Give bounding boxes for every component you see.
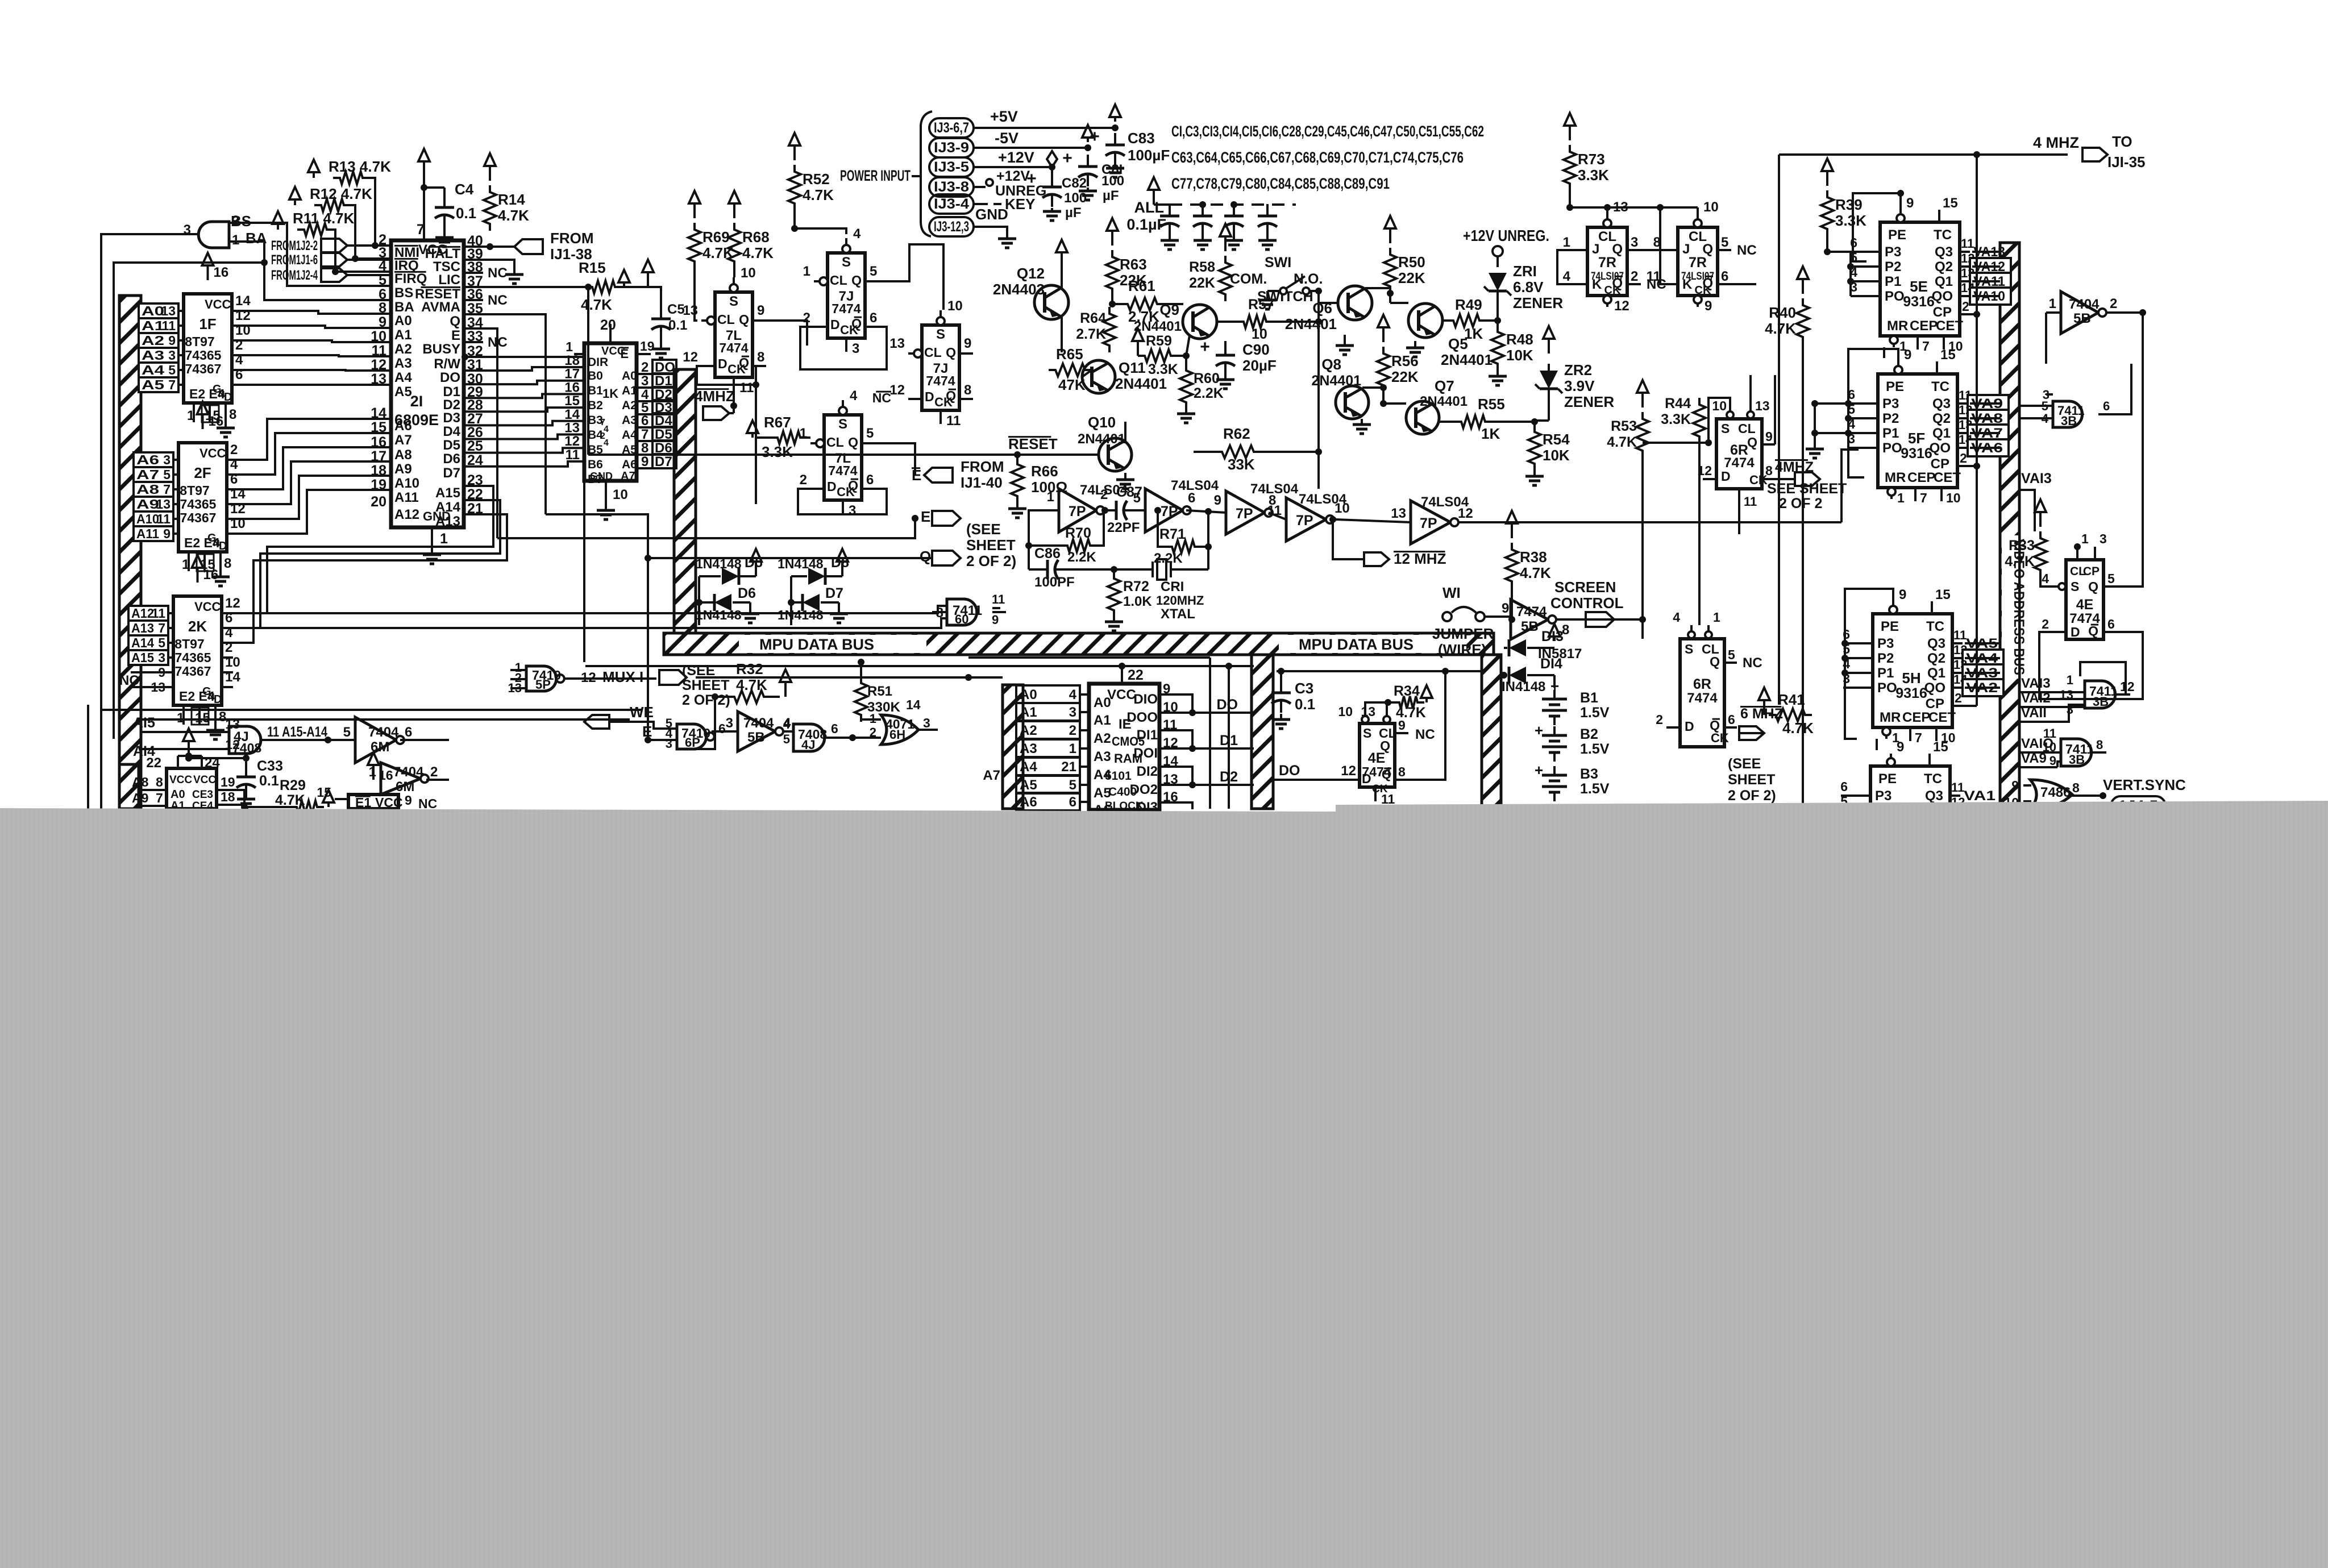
svg-text:+: + bbox=[1535, 722, 1543, 739]
svg-text:8: 8 bbox=[964, 382, 971, 398]
svg-text:Q: Q bbox=[1382, 767, 1391, 781]
svg-text:CP: CP bbox=[1931, 456, 1949, 472]
Q8 ground bbox=[1361, 419, 1363, 425]
svg-text:N.O.: N.O. bbox=[1294, 271, 1323, 287]
svg-text:9: 9 bbox=[168, 333, 176, 348]
svg-text:3: 3 bbox=[726, 716, 733, 731]
svg-text:4.7K: 4.7K bbox=[1765, 320, 1796, 337]
svg-text:2K: 2K bbox=[188, 618, 207, 635]
svg-text:CL: CL bbox=[924, 345, 942, 360]
RAM address bus (vertical hatched bar) bbox=[1003, 685, 1023, 809]
svg-text:A15: A15 bbox=[435, 485, 460, 501]
diode D8 1N4148 bbox=[791, 575, 807, 577]
svg-text:5E: 5E bbox=[1910, 278, 1928, 295]
svg-text:FROM1J2-4: FROM1J2-4 bbox=[271, 268, 318, 283]
wire 1F outputs staircase bbox=[243, 311, 391, 314]
svg-text:A1: A1 bbox=[1094, 713, 1111, 728]
svg-text:VCC: VCC bbox=[169, 774, 192, 786]
svg-text:BA: BA bbox=[394, 300, 414, 315]
svg-text:A8: A8 bbox=[394, 447, 412, 463]
svg-text:VCC: VCC bbox=[601, 345, 625, 357]
svg-text:20: 20 bbox=[371, 494, 386, 510]
svg-text:14: 14 bbox=[906, 697, 921, 712]
svg-text:CONTROL: CONTROL bbox=[1550, 594, 1624, 612]
svg-text:1: 1 bbox=[2081, 531, 2089, 546]
svg-text:4: 4 bbox=[379, 258, 386, 274]
resistor R41 4.7K bbox=[1769, 709, 1812, 721]
resistor R15 4.7K bbox=[585, 281, 622, 293]
svg-text:1: 1 bbox=[1069, 741, 1076, 756]
svg-text:13: 13 bbox=[889, 336, 905, 351]
4E top pins bbox=[1364, 705, 1366, 723]
wire HALT to flag bbox=[464, 246, 514, 248]
wire R32 node down bbox=[677, 697, 715, 749]
svg-text:2: 2 bbox=[1100, 487, 1108, 502]
svg-text:3B: 3B bbox=[2069, 752, 2085, 767]
svg-text:K: K bbox=[1592, 277, 1602, 292]
svg-text:4MHZ: 4MHZ bbox=[695, 388, 735, 405]
svg-text:IJ3-6,7: IJ3-6,7 bbox=[934, 120, 969, 136]
svg-text:Q3: Q3 bbox=[1935, 244, 1953, 260]
svg-text:11: 11 bbox=[1961, 236, 1974, 251]
svg-text:5P: 5P bbox=[535, 677, 551, 692]
wire Q6 base bbox=[1317, 291, 1320, 303]
svg-text:D: D bbox=[2071, 625, 2080, 639]
wire 5F PE loop bbox=[1848, 349, 1898, 477]
svg-text:7P: 7P bbox=[1236, 506, 1253, 522]
svg-text:19: 19 bbox=[221, 775, 235, 789]
svg-text:12 MHZ: 12 MHZ bbox=[1394, 550, 1446, 567]
svg-text:P3: P3 bbox=[1875, 788, 1891, 804]
MPU data bus label (right) bbox=[1279, 635, 1466, 653]
svg-text:2I: 2I bbox=[410, 393, 423, 410]
svg-text:P3: P3 bbox=[1885, 244, 1901, 260]
svg-text:2 OF 2): 2 OF 2) bbox=[682, 692, 730, 708]
transceiver right pins D0-D7 (boxed ladder) bbox=[637, 353, 651, 355]
svg-text:CK: CK bbox=[727, 362, 746, 376]
svg-text:VAIO: VAIO bbox=[2021, 736, 2053, 751]
svg-text:15: 15 bbox=[317, 785, 331, 800]
svg-text:PE: PE bbox=[1888, 227, 1906, 243]
wire mux out bbox=[564, 677, 656, 680]
svg-text:1: 1 bbox=[2067, 673, 2073, 687]
svg-text:DIO: DIO bbox=[1133, 692, 1158, 707]
svg-text:4.7K: 4.7K bbox=[1607, 434, 1637, 450]
svg-text:6: 6 bbox=[1721, 269, 1728, 284]
svg-text:2: 2 bbox=[430, 764, 438, 780]
gate U4J 7408 (BS/BA AND) bbox=[198, 222, 229, 248]
svg-text:2N4401: 2N4401 bbox=[1285, 315, 1337, 332]
svg-text:4: 4 bbox=[783, 717, 791, 731]
wire 7486 out bbox=[2082, 795, 2103, 797]
svg-text:R52: R52 bbox=[803, 170, 830, 188]
svg-text:7486: 7486 bbox=[2040, 785, 2071, 800]
svg-text:A2: A2 bbox=[1020, 723, 1037, 738]
svg-text:R14: R14 bbox=[498, 191, 525, 208]
wire 7L Q to right bbox=[766, 321, 807, 346]
svg-text:74365: 74365 bbox=[185, 348, 222, 363]
svg-text:3: 3 bbox=[158, 650, 165, 665]
KEY stub bbox=[974, 203, 988, 205]
wire 7L2 Q to E net bbox=[875, 443, 915, 475]
wire 5B input bbox=[2046, 311, 2061, 314]
svg-text:R67: R67 bbox=[764, 414, 791, 431]
svg-text:1: 1 bbox=[1897, 490, 1905, 505]
wire CP trunk to 4MHZ bbox=[1976, 155, 1978, 314]
IC E1 (partial bottom) bbox=[348, 795, 398, 809]
svg-text:9: 9 bbox=[1502, 601, 1509, 616]
svg-text:13: 13 bbox=[161, 303, 176, 318]
svg-text:6: 6 bbox=[1188, 490, 1195, 506]
svg-text:8: 8 bbox=[229, 407, 236, 422]
svg-text:D5: D5 bbox=[443, 438, 460, 453]
svg-text:2 OF 2): 2 OF 2) bbox=[1728, 788, 1776, 804]
svg-text:12: 12 bbox=[683, 350, 698, 365]
svg-text:4.7K: 4.7K bbox=[742, 244, 774, 261]
wire ZR2 bottom bbox=[1548, 398, 1550, 421]
svg-text:A3: A3 bbox=[142, 348, 164, 363]
svg-text:1N4148: 1N4148 bbox=[778, 556, 824, 571]
svg-text:C83: C83 bbox=[1128, 130, 1155, 147]
svg-text:9: 9 bbox=[2011, 778, 2019, 793]
svg-text:P2: P2 bbox=[1885, 259, 1901, 274]
inverter U5B 7404 (bottom) bbox=[738, 712, 775, 751]
svg-text:D7: D7 bbox=[825, 585, 843, 601]
wire vertical trunk x2162 bbox=[1228, 666, 1230, 809]
svg-text:A6: A6 bbox=[136, 452, 159, 467]
svg-text:D: D bbox=[224, 391, 232, 404]
svg-text:DOO: DOO bbox=[1126, 710, 1158, 725]
svg-text:2: 2 bbox=[2042, 617, 2049, 631]
MPU data bus vertical segment near RAM bbox=[1252, 655, 1273, 809]
wire 12MHZ bbox=[1333, 519, 1364, 559]
diode D7 1N4148 bbox=[791, 601, 801, 604]
resistor R68 4.7K bbox=[728, 223, 741, 268]
svg-text:JUMPER: JUMPER bbox=[1432, 625, 1494, 642]
resistor R38 4.7K bbox=[1506, 543, 1518, 588]
svg-text:GND: GND bbox=[590, 471, 613, 482]
svg-text:11: 11 bbox=[946, 413, 961, 429]
wire Q8-Q7 link bbox=[1362, 386, 1383, 389]
wire A13-A15 return 3 bbox=[222, 514, 507, 643]
svg-text:2.2K: 2.2K bbox=[1194, 385, 1224, 401]
svg-text:CL: CL bbox=[717, 312, 735, 327]
svg-text:11: 11 bbox=[157, 511, 171, 526]
key diamond bbox=[1047, 151, 1057, 167]
wire 5E P column bbox=[1849, 252, 1852, 296]
svg-text:P3: P3 bbox=[1882, 396, 1899, 411]
svg-text:PE: PE bbox=[1878, 771, 1897, 787]
svg-text:12: 12 bbox=[889, 382, 905, 398]
wire 6R1 down trunk bbox=[1641, 619, 1644, 639]
svg-text:74367: 74367 bbox=[180, 510, 217, 525]
svg-text:R66: R66 bbox=[1031, 463, 1058, 480]
svg-text:3: 3 bbox=[849, 503, 856, 518]
svg-text:B0: B0 bbox=[588, 369, 603, 382]
svg-text:B1: B1 bbox=[588, 384, 603, 397]
svg-text:5101: 5101 bbox=[1105, 770, 1132, 783]
svg-text:4.7K: 4.7K bbox=[1396, 705, 1426, 721]
svg-text:2 OF 2): 2 OF 2) bbox=[966, 552, 1016, 569]
svg-text:A2: A2 bbox=[142, 333, 164, 348]
wire RESET horizontal bbox=[587, 287, 589, 455]
svg-text:R61: R61 bbox=[1128, 277, 1155, 294]
wire 4J to 4071 bbox=[853, 737, 881, 739]
svg-text:3: 3 bbox=[641, 373, 648, 389]
svg-text:POWER INPUT: POWER INPUT bbox=[840, 167, 911, 184]
svg-text:6: 6 bbox=[1069, 795, 1076, 810]
flag FROM 1J1-38 bbox=[514, 239, 543, 254]
svg-text:120MHZ: 120MHZ bbox=[1156, 593, 1204, 608]
svg-text:6: 6 bbox=[2103, 399, 2110, 413]
svg-text:TO: TO bbox=[2112, 133, 2132, 150]
+12V UNREG stub bbox=[974, 186, 986, 188]
svg-text:4: 4 bbox=[604, 438, 609, 448]
svg-text:7P: 7P bbox=[1069, 504, 1086, 519]
wire E net bbox=[497, 518, 915, 538]
svg-text:74367: 74367 bbox=[185, 361, 222, 376]
wire 7411 inputs bbox=[932, 611, 947, 613]
MPU data bus (horizontal hatched bar, left segment) bbox=[664, 633, 1494, 655]
svg-text:VCC: VCC bbox=[205, 297, 231, 311]
svg-text:13: 13 bbox=[2060, 688, 2073, 702]
svg-text:A13: A13 bbox=[435, 514, 460, 529]
svg-text:6: 6 bbox=[641, 413, 648, 429]
wire (left vertical trunk from 7408 output) bbox=[101, 234, 197, 809]
svg-text:2: 2 bbox=[1631, 269, 1638, 284]
svg-text:10: 10 bbox=[1338, 704, 1353, 719]
svg-text:4: 4 bbox=[1069, 687, 1077, 702]
svg-text:A7: A7 bbox=[621, 470, 635, 483]
MPU data bus riser (vertical hatched bar from transceiver) bbox=[674, 369, 696, 633]
wires MPU D0-D7 to transceiver bbox=[464, 367, 584, 371]
svg-text:CET: CET bbox=[1934, 470, 1961, 485]
svg-text:R53: R53 bbox=[1611, 418, 1637, 434]
svg-text:3: 3 bbox=[1631, 235, 1638, 250]
svg-text:QO: QO bbox=[1930, 440, 1951, 456]
svg-text:7: 7 bbox=[158, 621, 165, 635]
svg-text:A4: A4 bbox=[1020, 759, 1037, 775]
svg-text:A13: A13 bbox=[131, 621, 154, 635]
svg-text:7474: 7474 bbox=[828, 463, 857, 478]
svg-text:4: 4 bbox=[235, 352, 243, 368]
svg-text:7474: 7474 bbox=[1724, 455, 1755, 471]
svg-text:22: 22 bbox=[146, 755, 161, 771]
svg-text:SHEET: SHEET bbox=[966, 536, 1016, 554]
svg-text:7P: 7P bbox=[1161, 504, 1178, 519]
svg-text:A14: A14 bbox=[131, 635, 154, 650]
svg-text:12: 12 bbox=[1614, 298, 1629, 314]
MPU GND pin 1 bbox=[431, 527, 433, 544]
svg-text:4 MHZ: 4 MHZ bbox=[2033, 134, 2079, 151]
svg-text:A6: A6 bbox=[1020, 795, 1037, 810]
4E D wire bbox=[1273, 779, 1360, 781]
svg-text:µF: µF bbox=[1103, 188, 1119, 203]
svg-text:5: 5 bbox=[379, 272, 386, 288]
svg-text:16: 16 bbox=[379, 768, 393, 783]
svg-text:ZENER: ZENER bbox=[1513, 294, 1563, 311]
wire video bus VA entries 5I bbox=[1963, 802, 2000, 805]
svg-text:Q3: Q3 bbox=[1925, 788, 1943, 804]
svg-text:7474: 7474 bbox=[926, 373, 955, 388]
svg-text:Q3: Q3 bbox=[1927, 636, 1945, 651]
resistor R44 3.3K bbox=[1693, 398, 1706, 443]
wire left trunk x3194 bbox=[1814, 153, 1816, 156]
svg-text:Q8: Q8 bbox=[1321, 356, 1341, 373]
svg-text:CL: CL bbox=[826, 435, 844, 450]
svg-text:9: 9 bbox=[158, 665, 165, 680]
wire Q7/Q8 bottom to node bbox=[1317, 452, 1320, 489]
svg-text:1K: 1K bbox=[1464, 325, 1483, 342]
svg-text:A12: A12 bbox=[131, 606, 154, 621]
svg-text:C33: C33 bbox=[257, 758, 283, 774]
svg-text:(SEE: (SEE bbox=[1728, 756, 1761, 772]
RAM U1E 5101 bbox=[1089, 684, 1159, 810]
svg-text:2: 2 bbox=[235, 338, 243, 353]
svg-text:10: 10 bbox=[1252, 326, 1267, 342]
svg-text:6: 6 bbox=[1728, 712, 1735, 727]
wire A13-A15 return 2 bbox=[222, 500, 500, 628]
svg-text:Q: Q bbox=[1747, 435, 1757, 450]
svg-text:7R: 7R bbox=[1598, 255, 1616, 271]
wire R40 long bbox=[1802, 344, 1804, 809]
svg-text:3.3K: 3.3K bbox=[1578, 167, 1609, 184]
svg-text:7404: 7404 bbox=[393, 764, 424, 780]
crystal CR1 12.0MHZ bbox=[1151, 562, 1154, 577]
svg-text:Q: Q bbox=[450, 314, 460, 329]
svg-text:1: 1 bbox=[803, 264, 810, 279]
svg-text:Q7: Q7 bbox=[1435, 377, 1454, 394]
svg-text:11: 11 bbox=[1951, 780, 1964, 795]
svg-text:7: 7 bbox=[641, 427, 648, 442]
svg-text:VCC: VCC bbox=[194, 600, 221, 614]
svg-text:FROM: FROM bbox=[961, 458, 1004, 475]
svg-text:5: 5 bbox=[1721, 235, 1728, 250]
svg-text:9: 9 bbox=[757, 303, 764, 318]
svg-text:E: E bbox=[921, 508, 930, 525]
svg-text:11: 11 bbox=[152, 606, 166, 621]
svg-text:4.7K: 4.7K bbox=[803, 186, 834, 203]
counter U5E 9316 bbox=[1880, 222, 1960, 336]
wire diode commons to bus bbox=[698, 622, 700, 625]
svg-text:P3: P3 bbox=[1877, 636, 1894, 651]
wire 7R2 outputs bbox=[1731, 283, 1756, 285]
svg-text:LIC: LIC bbox=[438, 272, 460, 288]
resistor R53 4.7K bbox=[1636, 412, 1649, 457]
capacitor C5 0.1 bbox=[618, 287, 661, 307]
svg-text:7P: 7P bbox=[1296, 513, 1313, 529]
svg-text:5B: 5B bbox=[2073, 311, 2091, 326]
svg-text:5: 5 bbox=[866, 426, 874, 441]
decoupling dashed wire bbox=[1154, 203, 1170, 206]
flip-flop U4E 7474 (video) bbox=[2066, 560, 2103, 639]
svg-text:0.1: 0.1 bbox=[1295, 696, 1315, 713]
svg-text:A3: A3 bbox=[1094, 749, 1111, 764]
svg-text:MR: MR bbox=[1887, 318, 1908, 334]
inverter U7P 74LS04 (1st) bbox=[1059, 489, 1096, 532]
svg-text:R38: R38 bbox=[1520, 548, 1547, 565]
resistor R33 4.7K bbox=[2034, 531, 2047, 577]
transistor Q12 2N4403 bbox=[1034, 285, 1069, 319]
svg-text:4.7K: 4.7K bbox=[736, 676, 767, 693]
svg-text:2: 2 bbox=[803, 310, 810, 326]
svg-text:CK: CK bbox=[934, 395, 953, 409]
svg-text:R64: R64 bbox=[1080, 310, 1106, 326]
svg-text:R49: R49 bbox=[1455, 296, 1482, 313]
svg-text:+: + bbox=[1062, 149, 1072, 168]
svg-text:3: 3 bbox=[1069, 705, 1076, 720]
svg-text:21: 21 bbox=[1061, 759, 1076, 775]
svg-text:8: 8 bbox=[1398, 764, 1406, 779]
svg-text:10: 10 bbox=[1703, 199, 1719, 215]
svg-text:A1: A1 bbox=[142, 318, 164, 333]
wire counter 5E PE loop bbox=[1853, 193, 1901, 261]
svg-text:BS: BS bbox=[231, 213, 251, 230]
svg-text:C5: C5 bbox=[667, 302, 685, 317]
wire E out bbox=[464, 328, 497, 538]
RAM DI-DO jog wires bbox=[1159, 694, 1192, 713]
svg-text:COM.: COM. bbox=[1230, 271, 1267, 287]
svg-text:E: E bbox=[912, 467, 921, 484]
svg-text:74365: 74365 bbox=[175, 650, 211, 665]
resistor R40 4.7K bbox=[1797, 298, 1809, 344]
svg-text:9: 9 bbox=[1899, 587, 1906, 602]
svg-text:VAI3: VAI3 bbox=[2021, 471, 2052, 486]
svg-text:4.7K: 4.7K bbox=[498, 207, 529, 224]
resistor R39 3.3K bbox=[1821, 190, 1834, 236]
svg-text:20µF: 20µF bbox=[1242, 357, 1277, 374]
svg-text:R73: R73 bbox=[1578, 151, 1605, 168]
svg-text:D4: D4 bbox=[443, 424, 460, 439]
svg-text:15: 15 bbox=[1940, 347, 1956, 363]
wire inv3-inv4-inv5 bbox=[1269, 513, 1286, 519]
svg-text:A9: A9 bbox=[394, 461, 412, 477]
svg-text:C77,C78,C79,C80,C84,C85,C88,C8: C77,C78,C79,C80,C84,C85,C88,C89,C91 bbox=[1171, 175, 1390, 192]
svg-text:BUSY: BUSY bbox=[422, 342, 460, 357]
svg-text:B3: B3 bbox=[1580, 766, 1598, 782]
svg-text:7: 7 bbox=[1915, 730, 1922, 745]
svg-text:11: 11 bbox=[739, 380, 754, 396]
svg-text:Q1: Q1 bbox=[1932, 426, 1951, 441]
wire BS from gate bbox=[229, 223, 391, 286]
svg-text:D6: D6 bbox=[738, 585, 756, 601]
svg-text:7P: 7P bbox=[1420, 515, 1437, 531]
battery B2 1.5V bbox=[1553, 726, 1556, 735]
svg-text:11: 11 bbox=[992, 592, 1005, 606]
svg-text:11: 11 bbox=[1744, 494, 1757, 509]
svg-text:8: 8 bbox=[224, 556, 231, 571]
resistor R51 330K bbox=[855, 676, 867, 722]
svg-text:R60: R60 bbox=[1194, 371, 1220, 386]
svg-text:IJ3-9: IJ3-9 bbox=[934, 140, 969, 156]
svg-text:1: 1 bbox=[566, 339, 573, 354]
svg-text:CEP: CEP bbox=[1910, 318, 1938, 334]
gray overlay (bottom of scan) bbox=[0, 801, 2328, 1568]
svg-text:S: S bbox=[842, 255, 851, 270]
decoupling cap stems bbox=[1169, 205, 1171, 206]
svg-text:DO: DO bbox=[440, 370, 460, 385]
transceiver GND pin 10 bbox=[605, 481, 607, 500]
svg-text:7404: 7404 bbox=[368, 725, 399, 740]
flip-flop U7L 7474 (second) bbox=[824, 415, 862, 500]
svg-text:7: 7 bbox=[1920, 490, 1927, 505]
svg-text:3.3K: 3.3K bbox=[1661, 411, 1691, 427]
BUSY NC bbox=[464, 341, 483, 343]
diode D6 1N4148 bbox=[699, 601, 713, 604]
decoupling capacitor row bbox=[1169, 204, 1171, 216]
wire 9316 MR trunk bbox=[1883, 347, 1885, 358]
6R2 pins bbox=[1690, 625, 1693, 639]
